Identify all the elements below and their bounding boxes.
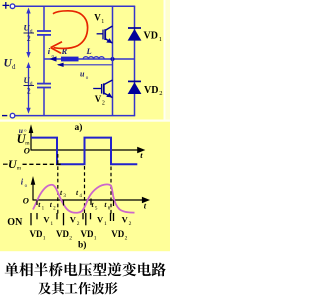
svg-text:2: 2: [27, 87, 31, 96]
svg-text:L: L: [86, 46, 92, 56]
svg-text:1: 1: [101, 19, 104, 25]
dashed -Um level: [23, 163, 63, 165]
interval tick bars: [30, 213, 32, 225]
diode VD1: [128, 27, 141, 29]
wire top rail: [15, 5, 135, 7]
io axis horizontal with arrow: [33, 199, 143, 201]
wire bottom rail: [15, 115, 135, 117]
svg-text:VD: VD: [81, 229, 94, 239]
io axis vertical: [32, 182, 34, 201]
svg-text:V: V: [94, 12, 101, 22]
plus terminal: [3, 2, 10, 9]
background panel a (circuit): [0, 0, 170, 120]
svg-text:V: V: [43, 215, 50, 225]
uo axis horizontal with arrow: [31, 149, 138, 151]
svg-text:V: V: [70, 215, 77, 225]
background panel b (waveforms): [0, 122, 170, 252]
svg-text:2: 2: [27, 34, 31, 43]
svg-text:2: 2: [69, 235, 72, 241]
svg-text:ON: ON: [7, 217, 23, 228]
svg-text:a): a): [75, 122, 83, 133]
capacitor C upper: [43, 6, 45, 30]
minus terminal: [2, 115, 7, 117]
svg-text:2: 2: [159, 90, 162, 97]
svg-text:2: 2: [129, 221, 132, 227]
caption line 1: [5, 262, 166, 276]
red freewheeling current loop: [53, 11, 88, 49]
io direction arrowhead on wire: [49, 56, 56, 61]
uo reference arrow: [58, 64, 113, 66]
wire diode leg: [134, 6, 136, 115]
svg-text:O: O: [24, 146, 30, 156]
svg-text:O: O: [23, 196, 29, 206]
diode VD2: [128, 80, 141, 82]
zero-cross ticks: [36, 200, 38, 205]
svg-text:V: V: [97, 215, 104, 225]
wire transistor leg: [112, 6, 114, 115]
load wire: [44, 58, 135, 60]
svg-text:VD: VD: [111, 229, 124, 239]
svg-text:VD: VD: [144, 31, 158, 42]
resistor R (solid box): [61, 57, 79, 62]
svg-text:d: d: [12, 63, 16, 71]
svg-text:1: 1: [43, 235, 46, 241]
label -Um: [3, 163, 8, 165]
svg-text:b): b): [78, 240, 86, 251]
uo square wave: [31, 138, 137, 165]
dashed vertical t6: [110, 167, 112, 214]
node: bridge midpoint junction: [111, 57, 115, 61]
inductor L (coil): [83, 57, 104, 59]
transistor V1 (IGBT): [105, 26, 112, 30]
transistor V2 (IGBT): [104, 80, 113, 85]
seam between panels: [0, 120, 170, 122]
svg-text:VD: VD: [144, 85, 158, 96]
svg-text:V: V: [122, 215, 129, 225]
svg-text:VD: VD: [56, 229, 69, 239]
dashed vertical t4: [84, 166, 86, 214]
svg-text:2: 2: [77, 221, 80, 227]
svg-text:2: 2: [102, 100, 105, 106]
svg-text:m: m: [17, 166, 22, 172]
svg-text:VD: VD: [30, 229, 43, 239]
capacitor C lower: [43, 59, 45, 83]
svg-text:1: 1: [159, 36, 162, 43]
uo axis vertical: [30, 131, 32, 151]
voltage arrow Ud/2 upper: [28, 12, 30, 53]
caption line 2: [38, 282, 117, 295]
svg-text:2: 2: [125, 235, 128, 241]
svg-text:1: 1: [50, 221, 53, 227]
voltage arrow Ud/2 lower: [28, 67, 30, 110]
dashed vertical t2: [57, 154, 59, 214]
svg-text:u: u: [80, 70, 85, 79]
svg-text:1: 1: [94, 235, 97, 241]
svg-text:1: 1: [104, 221, 107, 227]
io current curve (pink): [33, 184, 135, 212]
svg-text:V: V: [95, 94, 102, 104]
